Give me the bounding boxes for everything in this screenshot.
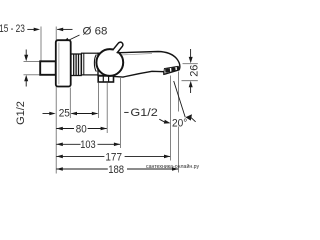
dimension 177 row <box>56 155 170 159</box>
ribbed adapter <box>71 54 81 76</box>
svg-text:103: 103 <box>80 139 95 151</box>
extension line escutcheon face x56 <box>55 27 57 174</box>
escutcheon <box>56 40 71 86</box>
svg-text:20°: 20° <box>172 117 187 129</box>
dimension 26 right vertical <box>189 49 193 93</box>
svg-text:G1/2: G1/2 <box>130 107 157 119</box>
extension line nut left x98.6 <box>98 83 100 118</box>
escutcheon inner line <box>58 43 60 85</box>
aerator cell 1 <box>165 68 170 73</box>
body end arc <box>94 55 96 72</box>
extension line spout tip top y63.7 <box>183 63 198 65</box>
extension line outlet bottom y80.7 <box>182 80 198 82</box>
inlet stub G1/2 <box>40 61 56 75</box>
extension line x107 <box>106 83 108 133</box>
extension line x120.4 <box>119 78 121 148</box>
svg-text:Ø 68: Ø 68 <box>83 26 108 38</box>
svg-text:сантехника-онлайн.ру: сантехника-онлайн.ру <box>146 163 199 170</box>
extension line x178.5 lower <box>178 127 180 173</box>
stream angle line 20deg <box>174 81 196 122</box>
extension line wall plane x41 <box>40 27 42 62</box>
aerator cell 3 <box>177 66 180 70</box>
dimension 103 row <box>56 143 120 147</box>
aerator band <box>164 66 179 71</box>
dimension G1/2 left vertical <box>24 50 28 87</box>
svg-text:177: 177 <box>105 151 122 163</box>
dimension 25 row <box>43 112 99 116</box>
extension line stub top y61.4 <box>24 60 40 62</box>
leader G1/2 right <box>159 119 170 123</box>
union nut <box>98 76 113 82</box>
svg-text:15 - 23: 15 - 23 <box>0 23 25 35</box>
dimension 15-23 <box>27 28 72 32</box>
adapter ribs <box>74 54 79 75</box>
body cylinder behind handle <box>82 53 111 75</box>
handle knob U <box>96 49 123 76</box>
label G1/2 right <box>124 111 128 113</box>
nut grooves <box>103 76 108 82</box>
spout body <box>98 52 180 78</box>
extension line escutcheon rear x70 <box>69 88 71 119</box>
extension line x170.4 <box>169 76 171 161</box>
leader diameter 68 <box>63 35 80 42</box>
aerator cell 2 <box>171 67 176 72</box>
svg-text:25: 25 <box>59 108 70 120</box>
handle lever <box>113 42 123 53</box>
extension line stub bottom y74.8 <box>24 74 40 76</box>
dimension 188 row <box>56 167 178 171</box>
svg-text:26: 26 <box>189 65 200 77</box>
body joint line <box>83 53 85 74</box>
dimension 80 row <box>56 127 107 131</box>
svg-text:G1/2: G1/2 <box>15 101 27 125</box>
svg-text:188: 188 <box>108 164 124 176</box>
svg-text:80: 80 <box>76 123 87 135</box>
extension line x178.5 upper <box>178 72 180 112</box>
spout highlight line <box>122 54 152 55</box>
